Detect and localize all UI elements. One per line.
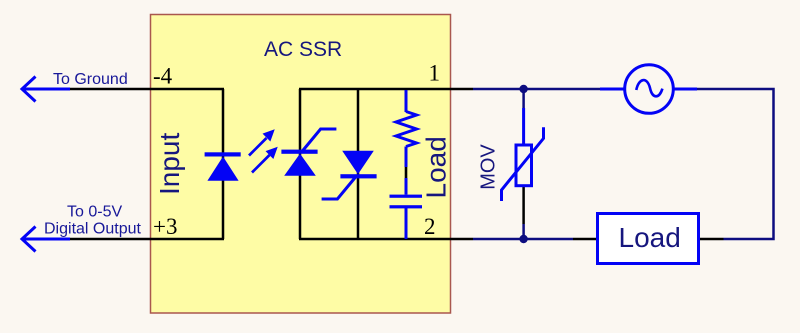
- SCR Q2 (pointing down): [322, 151, 377, 199]
- wire: node to AC source (blue lead): [600, 88, 626, 91]
- svg-text:AC SSR: AC SSR: [264, 38, 342, 61]
- svg-text:To Ground: To Ground: [53, 71, 128, 88]
- svg-text:-4: -4: [153, 64, 173, 89]
- svg-text:1: 1: [429, 61, 441, 86]
- svg-text:+3: +3: [153, 214, 177, 239]
- svg-text:Load: Load: [421, 136, 452, 198]
- wire: load box left stub (black): [573, 238, 598, 241]
- capacitor C1 (snubber): [390, 195, 423, 209]
- svg-text:Load: Load: [619, 222, 681, 253]
- load box: [598, 214, 699, 264]
- resistor R1 (snubber): [396, 90, 417, 195]
- wire: R1 to C1 (black segment): [405, 167, 408, 178]
- wire: MOV branch bottom: [522, 186, 525, 224]
- svg-text:2: 2: [424, 214, 436, 239]
- svg-text:Digital Output: Digital Output: [44, 221, 141, 238]
- node junction dot top: [519, 85, 527, 93]
- wire: C1 to bottom rail: [405, 208, 408, 239]
- photon arrow 1: [249, 132, 273, 156]
- wire: load box right stub (black): [699, 238, 724, 241]
- svg-text:Input: Input: [154, 133, 185, 195]
- svg-text:To 0-5V: To 0-5V: [67, 204, 122, 221]
- wire: AC source to right rail (navy): [697, 89, 774, 239]
- wire: pin +3 to input LED branch (bottom left, black): [69, 238, 224, 241]
- wire: SCR1 branch vertical: [299, 89, 302, 239]
- wire: MOV branch top (navy then blue): [522, 89, 525, 108]
- wire: output section bottom rail: [299, 238, 473, 241]
- wire: SCR2 branch vertical: [357, 89, 360, 239]
- wire: output section top rail: [299, 88, 473, 91]
- AC source V1: [625, 65, 674, 114]
- arrow to digital output (left arrow, bottom): [22, 227, 70, 252]
- SCR Q1 (photo-SCR, pointing up): [281, 129, 336, 176]
- LED D1 (input side, pointing up): [205, 152, 241, 181]
- varistor MOV: [502, 127, 544, 201]
- wire: LED branch vertical: [222, 89, 225, 239]
- SSR package body: [151, 15, 451, 314]
- wire: AC source right lead (blue): [673, 88, 697, 91]
- arrow to ground (left arrow, top): [22, 77, 70, 102]
- wire: pin -4 to input LED branch (top left, black): [69, 88, 224, 91]
- svg-text:MOV: MOV: [478, 144, 500, 190]
- photon arrow 2: [252, 149, 276, 173]
- wire: pin 2 to MOV node (navy): [473, 238, 573, 241]
- wire: pin 1 to MOV node (navy): [473, 88, 600, 91]
- node junction dot bottom: [519, 235, 527, 243]
